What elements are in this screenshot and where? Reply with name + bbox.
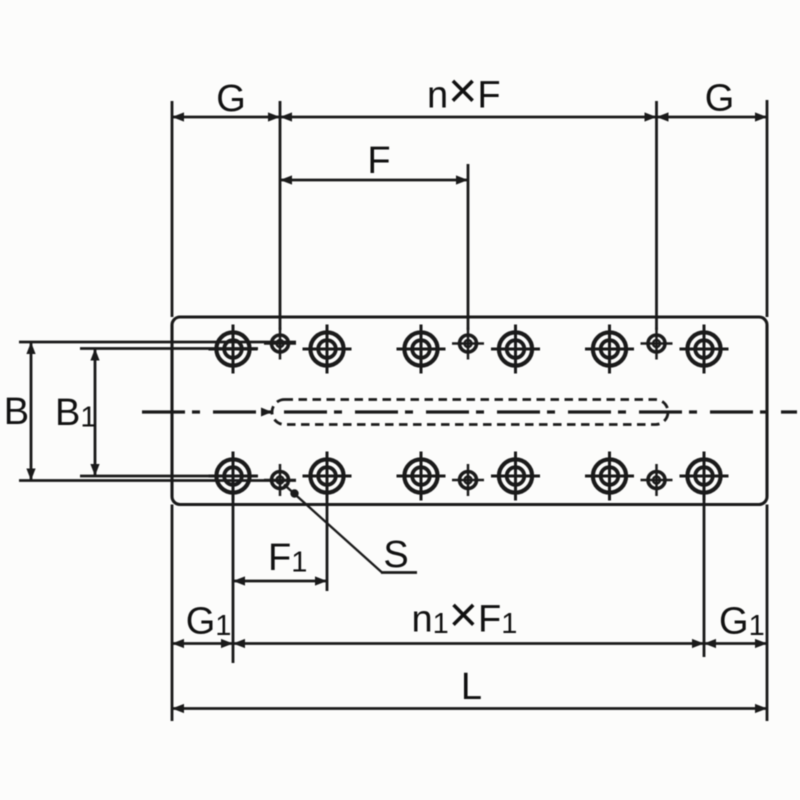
svg-text:B: B xyxy=(4,391,29,433)
svg-text:F: F xyxy=(367,140,390,182)
svg-text:G: G xyxy=(705,78,735,120)
svg-text:G: G xyxy=(216,78,246,120)
svg-text:S: S xyxy=(383,534,408,576)
svg-text:L: L xyxy=(461,666,482,708)
